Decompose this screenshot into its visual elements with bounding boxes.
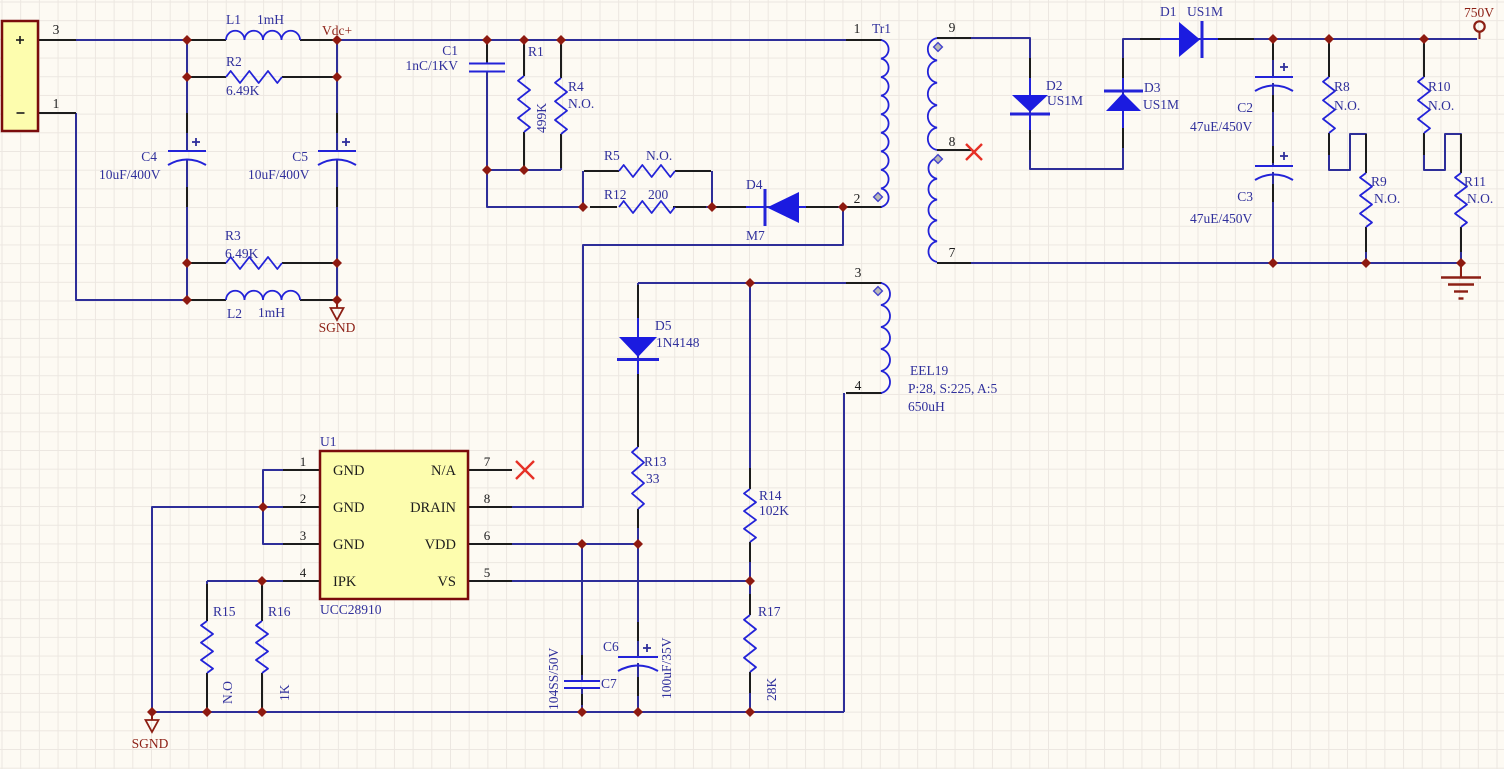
svg-text:7: 7 [484, 454, 491, 469]
svg-text:L1: L1 [226, 12, 241, 27]
wire aux row pin3 [638, 282, 846, 284]
capacitor C3 [1255, 165, 1293, 167]
wire R15 column lower [206, 673, 208, 712]
svg-text:R11: R11 [1464, 174, 1486, 189]
capacitor C4 [168, 150, 206, 152]
svg-text:N.O.: N.O. [1334, 98, 1360, 113]
svg-text:GND: GND [333, 537, 364, 553]
wire U1 gnd bracket [263, 470, 283, 544]
svg-text:C4: C4 [141, 149, 157, 164]
svg-text:1mH: 1mH [258, 305, 285, 320]
power 750V terminal [1474, 21, 1484, 31]
ground earth symbol [1460, 263, 1462, 277]
svg-text:1: 1 [300, 454, 307, 469]
svg-text:C3: C3 [1237, 189, 1253, 204]
resistor R17 [744, 615, 756, 672]
wire D5/R13 column [637, 283, 639, 447]
wire C2 column upper [1272, 39, 1274, 77]
wire R12 row to D4 [675, 206, 846, 208]
wire C7 column upper [581, 544, 583, 681]
svg-text:Tr1: Tr1 [872, 21, 891, 36]
resistor R14 [744, 489, 756, 542]
svg-text:D1: D1 [1160, 4, 1177, 19]
svg-text:47uE/450V: 47uE/450V [1190, 119, 1252, 134]
svg-text:1nC/1KV: 1nC/1KV [405, 58, 458, 73]
svg-text:102K: 102K [759, 503, 789, 518]
svg-text:1: 1 [854, 21, 861, 36]
svg-text:100uF/35V: 100uF/35V [659, 637, 674, 699]
wire R1 column lower [523, 132, 525, 170]
svg-text:GND: GND [333, 500, 364, 516]
wire C1 column lower and to R12 [487, 72, 583, 207]
wire C2/C3 column middle [1272, 83, 1274, 166]
wire C7 column lower [581, 688, 583, 712]
wire R10 top lead [1423, 39, 1425, 77]
wire R4 column lower [560, 134, 562, 170]
transformer Tr1 aux winding [881, 283, 890, 393]
transformer Tr1 secondary winding upper [928, 38, 937, 150]
resistor R5 [619, 165, 675, 177]
wire from connector pin1 down/right [76, 113, 226, 300]
wire U1 pin2 to SGND column [152, 507, 283, 712]
svg-text:GND: GND [333, 463, 364, 479]
svg-text:D2: D2 [1046, 78, 1063, 93]
wire secondary bottom rail [971, 262, 1461, 264]
capacitor C6 [618, 656, 658, 658]
svg-text:33: 33 [646, 471, 660, 486]
resistor R4 [555, 78, 567, 134]
wire R15 column upper [206, 581, 208, 621]
connector plus pin [16, 39, 24, 41]
wire Vdc+ top rail left of L1 [76, 39, 226, 41]
power SGND symbol [336, 302, 338, 308]
svg-text:N.O.: N.O. [646, 148, 672, 163]
connector J1 body [2, 21, 38, 131]
svg-text:R5: R5 [604, 148, 620, 163]
svg-text:6.49K: 6.49K [226, 83, 260, 98]
svg-text:5: 5 [484, 565, 491, 580]
svg-text:R2: R2 [226, 54, 242, 69]
svg-text:3: 3 [53, 22, 60, 37]
transformer Tr1 pin8 polarity dot [934, 155, 943, 164]
svg-text:R4: R4 [568, 79, 584, 94]
wire R4 column upper [560, 40, 562, 78]
svg-text:IPK: IPK [333, 574, 357, 590]
wire L2 right lead to SGND node [300, 299, 337, 301]
diode D4 [767, 192, 799, 223]
capacitor C1 [469, 63, 505, 65]
transformer Tr1 secondary winding lower [928, 158, 937, 262]
svg-text:US1M: US1M [1047, 93, 1083, 108]
svg-text:R14: R14 [759, 488, 782, 503]
wire R14 column upper [749, 283, 751, 489]
svg-text:VDD: VDD [425, 537, 456, 553]
svg-text:47uE/450V: 47uE/450V [1190, 211, 1252, 226]
wire IPK row [207, 580, 283, 582]
wire C3 column lower [1272, 172, 1274, 263]
svg-text:R9: R9 [1371, 174, 1387, 189]
wire C6 column lower [637, 663, 639, 712]
svg-text:6.49K: 6.49K [225, 246, 259, 261]
resistor R15 [201, 621, 213, 673]
svg-text:N/A: N/A [431, 463, 457, 479]
wire vertical C5 column lower [336, 160, 338, 300]
wire VDD row [468, 543, 638, 545]
power SGND symbol bottom [151, 714, 153, 720]
wire secondary pin9 to D2/D3 loop [971, 38, 1477, 169]
svg-text:104SS/50V: 104SS/50V [546, 647, 561, 710]
wire C6 column upper [637, 544, 639, 657]
wire bottom SGND rail [152, 711, 844, 713]
svg-text:D5: D5 [655, 318, 672, 333]
svg-text:2: 2 [300, 491, 307, 506]
svg-text:8: 8 [949, 134, 956, 149]
wire C1 column upper [486, 40, 488, 63]
resistor R11 [1455, 173, 1467, 227]
diode D1 [1179, 22, 1200, 57]
wire R16 column upper [261, 581, 263, 621]
svg-text:R8: R8 [1334, 79, 1350, 94]
resistor R10 [1418, 77, 1430, 133]
resistor R2 [226, 71, 282, 83]
svg-text:4: 4 [855, 378, 862, 393]
wire R16 column lower [261, 673, 263, 712]
svg-text:M7: M7 [746, 228, 765, 243]
capacitor C2 [1255, 76, 1293, 78]
wire vertical C5 column upper [336, 40, 338, 151]
svg-text:R3: R3 [225, 228, 241, 243]
inductor L1 [226, 31, 300, 40]
wire junctions [147, 34, 1466, 717]
svg-text:28K: 28K [764, 678, 779, 702]
svg-text:VS: VS [437, 574, 456, 590]
svg-text:3: 3 [300, 528, 307, 543]
svg-text:N.O.: N.O. [1467, 191, 1493, 206]
svg-text:1K: 1K [277, 684, 292, 701]
connector minus pin [17, 112, 25, 114]
svg-text:N.O: N.O [220, 681, 235, 704]
wire R10/R11 jog [1424, 133, 1461, 173]
resistor R1 [518, 76, 530, 132]
inductor L2 [226, 291, 300, 300]
diode D2 [1012, 95, 1048, 112]
svg-text:C2: C2 [1237, 100, 1253, 115]
svg-text:3: 3 [855, 265, 862, 280]
capacitor C7 [564, 680, 600, 682]
svg-text:R1: R1 [528, 44, 544, 59]
svg-text:SGND: SGND [319, 320, 356, 335]
wire R5/R12 left bracket [582, 171, 584, 207]
resistor R3 [226, 257, 282, 269]
wire vertical C4 column upper [186, 40, 188, 151]
wire R1 column upper [523, 40, 525, 76]
svg-text:10uF/400V: 10uF/400V [99, 167, 161, 182]
transformer Tr1 pin2 polarity dot [874, 193, 883, 202]
svg-text:7: 7 [949, 245, 956, 260]
svg-text:P:28, S:225, A:5: P:28, S:225, A:5 [908, 381, 998, 396]
svg-text:EEL19: EEL19 [910, 363, 948, 378]
resistor R9 [1360, 173, 1372, 227]
svg-text:UCC28910: UCC28910 [320, 602, 382, 617]
svg-text:8: 8 [484, 491, 491, 506]
svg-text:L2: L2 [227, 306, 242, 321]
diode D3 [1106, 93, 1141, 111]
svg-text:1N4148: 1N4148 [656, 335, 700, 350]
svg-text:D3: D3 [1144, 80, 1161, 95]
wire R17 bottom lead [749, 672, 751, 712]
svg-text:N.O.: N.O. [1374, 191, 1400, 206]
svg-text:R17: R17 [758, 604, 781, 619]
svg-text:200: 200 [648, 187, 669, 202]
wire vertical C4 column lower [186, 160, 188, 300]
svg-text:499K: 499K [534, 103, 549, 133]
wire drain loop [468, 207, 843, 507]
svg-text:750V: 750V [1464, 5, 1494, 20]
svg-text:9: 9 [949, 20, 956, 35]
transformer Tr1 primary winding [881, 40, 889, 207]
svg-text:C6: C6 [603, 639, 619, 654]
op-amp U1 body [320, 451, 468, 599]
wire R1/R4 bottom tie [487, 169, 561, 171]
svg-text:C7: C7 [601, 676, 617, 691]
svg-text:N.O.: N.O. [1428, 98, 1454, 113]
svg-text:2: 2 [854, 191, 861, 206]
transformer Tr1 pin9 polarity dot [934, 43, 943, 52]
svg-text:C1: C1 [442, 43, 458, 58]
capacitor C5 [318, 150, 356, 152]
svg-text:6: 6 [484, 528, 491, 543]
svg-text:R16: R16 [268, 604, 291, 619]
svg-text:U1: U1 [320, 434, 337, 449]
svg-text:10uF/400V: 10uF/400V [248, 167, 310, 182]
svg-text:C5: C5 [292, 149, 308, 164]
wire R5/R12 right bracket [711, 171, 713, 207]
resistor R16 [256, 621, 268, 673]
no-connect on pin 8 [966, 144, 982, 160]
svg-text:US1M: US1M [1187, 4, 1223, 19]
diode D5 [619, 337, 657, 357]
wire R13 bottom lead [637, 509, 639, 544]
wire Vdc+ top rail right of L1 [300, 39, 846, 41]
svg-text:US1M: US1M [1143, 97, 1179, 112]
svg-text:4: 4 [300, 565, 307, 580]
svg-text:1mH: 1mH [257, 12, 284, 27]
wire R9 bottom lead [1365, 227, 1367, 263]
svg-text:R13: R13 [644, 454, 667, 469]
resistor R12 [619, 201, 675, 213]
svg-text:R12: R12 [604, 187, 627, 202]
svg-text:R10: R10 [1428, 79, 1451, 94]
svg-text:1: 1 [53, 96, 60, 111]
wire R8 top lead [1328, 39, 1330, 77]
svg-text:R15: R15 [213, 604, 236, 619]
no-connect on U1 pin 7 [516, 461, 534, 479]
transformer Tr1 aux polarity dot [874, 287, 883, 296]
svg-text:SGND: SGND [132, 736, 169, 751]
wire R11 bottom lead [1460, 227, 1462, 263]
wire R8/R9 jog [1329, 133, 1366, 173]
svg-text:650uH: 650uH [908, 399, 945, 414]
svg-text:N.O.: N.O. [568, 96, 594, 111]
resistor R8 [1323, 77, 1335, 133]
wire aux pin4 column [843, 393, 845, 712]
wire VS row [468, 580, 750, 582]
svg-text:D4: D4 [746, 177, 763, 192]
wire R14/R17 middle [749, 542, 751, 615]
resistor R13 [632, 447, 644, 509]
svg-text:DRAIN: DRAIN [410, 500, 456, 516]
